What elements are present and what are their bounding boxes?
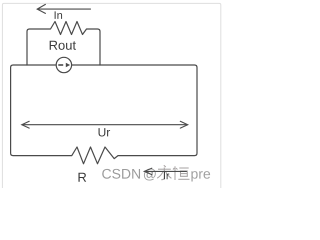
current arrow Ir [144, 168, 186, 174]
border frame [2, 3, 220, 199]
label In [55, 11, 62, 19]
watermark char heng [173, 166, 190, 180]
voltage arrow Ur (double-headed) [22, 121, 188, 128]
label Ir [164, 172, 169, 179]
watermark CSDN [102, 169, 140, 179]
watermark at-sign [144, 168, 156, 180]
label R [78, 173, 86, 182]
current arrow In [37, 4, 90, 13]
current source U1 [56, 57, 71, 72]
watermark pre [191, 171, 210, 181]
label Rout [50, 41, 76, 50]
wire main loop, includes resistor R zigzag in bottom side [11, 65, 197, 164]
wire Rout branch loop with resistor Rout zigzag [27, 22, 100, 66]
watermark char yong [157, 165, 171, 179]
label Ur [99, 128, 111, 136]
